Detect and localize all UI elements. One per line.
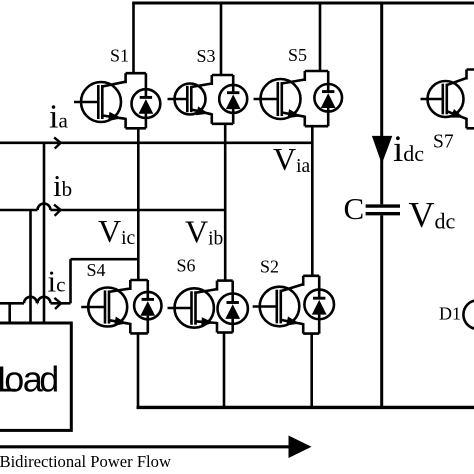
svg-text:S4: S4	[87, 260, 106, 280]
svg-text:Vib: Vib	[185, 214, 223, 250]
svg-text:idc: idc	[393, 129, 424, 170]
svg-text:ic: ic	[48, 264, 66, 299]
svg-text:Vdc: Vdc	[409, 195, 456, 235]
svg-text:ib: ib	[53, 168, 72, 203]
svg-text:Bidirectional Power Flow: Bidirectional Power Flow	[0, 452, 171, 471]
svg-text:S2: S2	[260, 257, 279, 277]
svg-text:S6: S6	[177, 256, 196, 276]
svg-text:C: C	[344, 191, 365, 226]
svg-text:S7: S7	[433, 132, 454, 153]
svg-text:S1: S1	[110, 46, 129, 66]
svg-text:S3: S3	[197, 46, 216, 66]
svg-text:Vic: Vic	[98, 213, 136, 249]
svg-text:Via: Via	[273, 141, 311, 177]
svg-text:D1: D1	[439, 304, 461, 324]
svg-text:ia: ia	[49, 99, 68, 136]
svg-text:Load: Load	[0, 359, 59, 400]
svg-text:S5: S5	[288, 45, 307, 65]
